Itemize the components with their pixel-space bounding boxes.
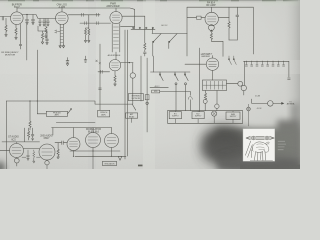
resistor R13 with ground xyxy=(45,19,47,39)
capacitor C14 xyxy=(31,128,34,140)
socket base below V7 xyxy=(16,157,18,160)
capacitor C11 line xyxy=(236,7,239,40)
wire cross tie xyxy=(229,39,237,41)
contact pin P1 xyxy=(160,72,163,81)
wire V11 riser xyxy=(111,128,113,134)
modulator lower rail xyxy=(75,155,126,157)
hatch diagonal 2 xyxy=(248,145,253,158)
wire tank right drop xyxy=(288,61,291,79)
box MOD meter xyxy=(152,90,160,93)
wire long feed xyxy=(36,50,38,114)
tube V10 modulator xyxy=(86,133,101,148)
svg-text:6SN7: 6SN7 xyxy=(44,138,50,140)
resistor R2 cathode xyxy=(15,24,17,39)
svg-text:A-480: A-480 xyxy=(58,6,65,9)
wire grid V3 xyxy=(80,22,111,24)
resistor R11 xyxy=(28,128,30,140)
resistor R1 grid leak xyxy=(5,18,7,36)
emblem wheel left xyxy=(251,136,255,140)
svg-text:AMPL: AMPL xyxy=(55,114,60,117)
svg-text:NETWORK: NETWORK xyxy=(132,98,141,100)
svg-text:SUPPLY: SUPPLY xyxy=(195,116,202,118)
wire V8 label drop xyxy=(52,128,54,135)
capacitor C13 xyxy=(2,128,40,142)
tube V1 buffer xyxy=(10,12,23,25)
terminal pin P6 xyxy=(146,102,148,104)
svg-text:RF OUTPUT: RF OUTPUT xyxy=(203,54,213,56)
wire V7 grid stub xyxy=(16,142,18,143)
svg-text:SUPPLY: SUPPLY xyxy=(172,116,179,118)
wire V6 grid xyxy=(185,63,206,65)
box A3 ant relay xyxy=(126,113,138,123)
relay contact rail xyxy=(151,71,191,73)
wire T1 bottom xyxy=(204,91,206,100)
wire V1 plate out xyxy=(22,15,56,19)
photo frame xyxy=(243,129,275,162)
bull horn xyxy=(265,142,269,145)
node dots audio rail xyxy=(37,100,38,101)
wire V5 grid xyxy=(98,71,110,73)
wire arrow to relay box xyxy=(132,104,136,110)
contact pin P2 xyxy=(175,72,178,81)
switch bank rail xyxy=(152,28,187,34)
tube V2 oscillator xyxy=(56,12,69,25)
resistor R16 cluster xyxy=(33,150,35,163)
tank tap 5 xyxy=(267,61,268,62)
top page edge shading xyxy=(0,0,300,1)
feedthrough F1 xyxy=(133,27,134,28)
wire PA feed rail xyxy=(187,7,253,33)
contact K1 xyxy=(229,56,232,65)
box MON frequency network xyxy=(129,94,144,101)
tank tap 7 xyxy=(278,61,279,62)
component Z2 on bus xyxy=(145,95,149,100)
resistor R8 bleeder xyxy=(228,7,230,40)
lamp DS2 pilot xyxy=(247,107,251,111)
svg-text:AMPLIFIER: AMPLIFIER xyxy=(106,5,119,8)
wire screen bus xyxy=(99,44,101,110)
bull shading xyxy=(256,144,264,150)
wire switch drop xyxy=(186,34,188,57)
bull rump and tail xyxy=(251,147,253,158)
wire coil tap xyxy=(121,26,135,28)
node dots on rails xyxy=(73,156,74,157)
wire V1 drop with capacitor C19 xyxy=(19,24,21,49)
capacitor C18 with ground xyxy=(46,31,49,45)
wire V2 plate out xyxy=(68,14,100,16)
box REG regulator xyxy=(102,162,116,166)
wire rail corner drop xyxy=(134,9,136,29)
wire meter feed xyxy=(243,61,245,85)
capacitor C17 series xyxy=(101,70,103,73)
green tint washes behind top labels xyxy=(7,0,300,7)
mod meter line xyxy=(150,87,168,89)
svg-text:RELAY: RELAY xyxy=(129,115,135,118)
bull hind legs xyxy=(254,151,258,160)
transformer T1 xyxy=(203,70,227,90)
junction arrows near V5 xyxy=(96,60,101,64)
tank tap 1 xyxy=(246,61,247,62)
capacitor C15 series xyxy=(85,22,87,25)
meter M3 xyxy=(215,104,219,108)
wire C12 to V9 xyxy=(64,142,67,144)
wire branch xyxy=(38,26,47,31)
contact pin P3 xyxy=(185,72,188,81)
modulator grid rail xyxy=(52,127,112,129)
svg-text:MONITOR: MONITOR xyxy=(5,55,16,57)
wire pilot top xyxy=(248,104,250,107)
wire T1 to jack xyxy=(227,83,238,85)
wire V5 plate xyxy=(121,62,133,64)
box PS2 MV supply xyxy=(192,111,204,124)
wire Z1 to V4 xyxy=(201,17,205,19)
switch S1 xyxy=(153,34,161,56)
wire V9 riser xyxy=(73,128,75,138)
meter A1 plate current xyxy=(241,85,246,95)
wire V10 riser xyxy=(92,128,94,133)
meter M2 xyxy=(203,99,207,103)
wire bus xyxy=(140,56,142,101)
wire pin drops xyxy=(176,85,186,111)
wire cluster tie xyxy=(22,156,40,158)
bull back and hump xyxy=(253,142,267,147)
ground line xyxy=(250,160,273,162)
svg-text:2ND AUDIO: 2ND AUDIO xyxy=(40,135,53,138)
tank tap 8 xyxy=(283,61,284,62)
tank tap 3 xyxy=(256,61,257,62)
capacitor C16 series xyxy=(97,22,99,25)
wire top B+ rail xyxy=(17,8,135,9)
ground G3 xyxy=(57,157,59,159)
contact K2 xyxy=(234,56,237,65)
wire V9 bottom xyxy=(73,151,75,157)
socket base below V8 xyxy=(46,159,48,162)
coil ladder L2 xyxy=(112,24,120,53)
tube V3 amplifier xyxy=(110,12,122,24)
resistor R15 xyxy=(88,28,90,42)
tube V9 modulator driver xyxy=(67,138,80,151)
wire audio input drop xyxy=(5,101,7,150)
supply top rail xyxy=(168,110,243,112)
wire pilot drop xyxy=(248,111,250,126)
wire tank feed xyxy=(252,7,254,54)
capacitor C1 input xyxy=(2,17,3,21)
bottom-right dark corner region xyxy=(277,120,300,169)
audio mid rail xyxy=(56,122,95,124)
wire V10 bottom xyxy=(92,148,94,157)
svg-text:6C5: 6C5 xyxy=(11,139,16,141)
wire V4 plate out xyxy=(218,17,229,19)
tube V4 power amplifier xyxy=(205,7,218,26)
capacitor C7 series xyxy=(82,13,84,16)
capacitor C9 xyxy=(99,88,102,89)
wire screen drop xyxy=(26,25,28,60)
wire bottom stubs xyxy=(6,150,93,169)
ground G4 ladder xyxy=(59,45,65,48)
capacitor C2 with ground xyxy=(26,15,29,25)
wire hop arc xyxy=(188,97,192,100)
meter M1 xyxy=(130,63,135,105)
tank tap 6 xyxy=(272,61,273,62)
wire riser V1 plate to rail xyxy=(16,8,18,12)
svg-text:SUPPLY: SUPPLY xyxy=(230,116,237,118)
emblem wheel right xyxy=(265,136,269,140)
resistor R12 with ground xyxy=(41,31,43,44)
wire T1 right drop xyxy=(216,91,218,105)
supply bottom rail xyxy=(168,111,243,124)
svg-text:8L6 & 8L6: 8L6 & 8L6 xyxy=(88,131,100,134)
paper grain xyxy=(0,0,300,169)
tube V5 audio driver xyxy=(109,59,120,70)
caption marks in dark margin xyxy=(278,141,286,149)
tube V8 2nd audio xyxy=(39,144,55,160)
faint scan streaks xyxy=(143,0,155,169)
ground G1 xyxy=(84,56,87,62)
bull belly xyxy=(256,151,263,154)
paper background xyxy=(0,0,300,169)
svg-text:CARRIER: CARRIER xyxy=(201,55,211,58)
wire V3 plate riser xyxy=(115,8,117,12)
capacitor C5 xyxy=(43,19,46,27)
terminal pin P5 xyxy=(185,83,187,85)
wire mod line xyxy=(160,91,191,110)
capacitor C7b series xyxy=(97,13,99,16)
svg-text:6SJ7: 6SJ7 xyxy=(14,6,20,9)
PA tank rail xyxy=(244,60,289,62)
svg-text:RF FREQUENCY: RF FREQUENCY xyxy=(1,52,19,54)
right page edge shading xyxy=(284,0,300,169)
bottom-left corner smudge xyxy=(0,162,5,175)
wire coil to V5 xyxy=(115,52,117,60)
feedthrough rail xyxy=(131,28,155,30)
modulator cathode rail xyxy=(70,150,120,152)
capacitor C3 with ground xyxy=(32,15,35,25)
capacitor C12 coupling xyxy=(62,141,63,145)
svg-text:ST AUDIO: ST AUDIO xyxy=(8,136,19,139)
antenna line with meter A2 xyxy=(252,99,285,106)
tank tap 4 xyxy=(262,61,263,62)
capacitor C4 xyxy=(39,19,42,27)
wire V7 plate to V8 xyxy=(24,147,40,149)
wire V11 bottom xyxy=(111,148,113,157)
wire box A1 arrow out xyxy=(68,109,72,114)
svg-text:AMPL: AMPL xyxy=(101,113,106,116)
lamp DS1 xyxy=(212,111,217,123)
wire V8 plate xyxy=(55,142,61,144)
tube V7 1st audio xyxy=(10,144,24,158)
coil ladder L3 below V2 xyxy=(60,24,63,44)
bull head xyxy=(264,145,269,153)
coupling component Z1 xyxy=(197,16,202,19)
svg-text:RF AMP: RF AMP xyxy=(206,4,216,7)
resistor R5 divider xyxy=(143,16,146,56)
emblem left wing xyxy=(246,136,251,140)
resistor R14 xyxy=(84,28,88,42)
wire interlock bus xyxy=(146,58,148,132)
box A2 speech amp xyxy=(98,110,110,117)
ink dash mark xyxy=(138,165,143,167)
wire V6 top xyxy=(212,56,214,59)
wire B+ feed right vertical xyxy=(127,30,129,156)
capacitor C20 cluster xyxy=(27,150,30,161)
jack J4 xyxy=(238,81,243,86)
tube V6 carrier control xyxy=(206,58,218,70)
resistor R10 xyxy=(57,143,59,157)
wire supply riser xyxy=(199,48,201,112)
hatch diagonal 1 xyxy=(245,141,251,156)
tube V11 modulator xyxy=(105,134,119,148)
symbol thermistor triangle xyxy=(118,156,122,160)
box PS3 bias supply xyxy=(226,111,240,124)
box A1 PP audio xyxy=(37,111,67,116)
resistor R9 xyxy=(29,101,31,130)
bull front legs xyxy=(261,151,266,160)
wire V3 output xyxy=(122,15,145,17)
feedthrough F3 xyxy=(146,27,147,28)
capacitor C6 xyxy=(47,19,50,27)
svg-text:40 KW: 40 KW xyxy=(257,108,262,110)
tube V4 base xyxy=(209,25,215,31)
capacitor C10 with ground xyxy=(66,58,69,66)
node J1 xyxy=(26,14,27,15)
resistor R7 V4 cathode xyxy=(210,30,223,56)
box PS1 HV supply xyxy=(169,111,181,124)
capacitor C8 tap xyxy=(55,30,60,33)
wire audio input xyxy=(0,149,10,151)
audio top rail xyxy=(6,101,132,104)
node J3 xyxy=(129,62,130,63)
tank tap 2 xyxy=(251,61,252,62)
wire B+ feed left vertical xyxy=(124,30,126,159)
wire rail stub left xyxy=(152,56,154,72)
switch S2 xyxy=(169,34,177,49)
feedthrough F2 xyxy=(139,27,140,28)
wire comb stub xyxy=(88,15,90,28)
emblem right wing xyxy=(269,136,275,140)
emblem banner xyxy=(255,137,265,140)
resistor R6 V5 cathode xyxy=(114,71,116,86)
feedthrough F4 xyxy=(152,27,153,28)
svg-text:ADJUSTABLE: ADJUSTABLE xyxy=(108,54,121,57)
wire riser V2 plate to rail xyxy=(61,8,63,12)
shadow blob left of photo xyxy=(202,127,302,176)
wire input line xyxy=(0,16,11,18)
terminal pin P4 xyxy=(175,83,177,85)
